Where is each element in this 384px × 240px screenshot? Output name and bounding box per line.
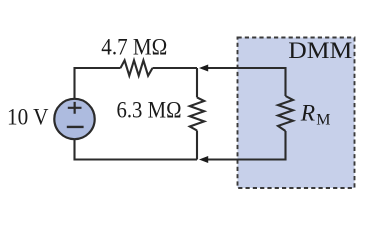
wire bottom-left (source bottom to node B) xyxy=(75,140,198,160)
voltage source V1 10 V xyxy=(54,99,94,139)
arrowhead top xyxy=(200,65,208,71)
DMM box xyxy=(238,38,355,189)
svg-text:R: R xyxy=(300,101,315,127)
svg-text:4.7 MΩ: 4.7 MΩ xyxy=(101,34,167,60)
resistor RM zigzag xyxy=(278,96,293,131)
svg-text:10 V: 10 V xyxy=(7,105,49,131)
arrowhead bottom xyxy=(200,156,208,162)
wire top (R1 right lead to node A) xyxy=(153,67,198,69)
svg-text:DMM: DMM xyxy=(288,38,352,64)
svg-text:6.3 MΩ: 6.3 MΩ xyxy=(117,97,182,123)
resistor R1 4.7 Mohm zigzag xyxy=(121,60,153,75)
resistor R2 6.3 Mohm vertical with leads xyxy=(190,68,204,160)
wire top-left (source top to R1 left lead) xyxy=(75,68,121,98)
wire arrow top (from RM top to node A) xyxy=(207,68,286,96)
wire arrow bottom (from RM bottom to node B) xyxy=(207,131,286,160)
svg-text:M: M xyxy=(316,112,330,129)
